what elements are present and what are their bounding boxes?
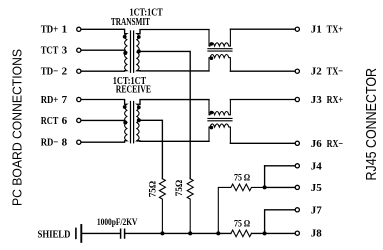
choke L1 bottom phase dot [210,56,214,60]
svg-text:1000pF/2KV: 1000pF/2KV [97,218,138,228]
choke L1 top winding (transmit) [209,29,230,46]
svg-text:J7: J7 [311,204,323,216]
transformer T1 secondary phase dot [137,35,141,39]
svg-text:TRANSMIT: TRANSMIT [111,17,150,28]
choke L2 bottom winding (receive) [209,124,230,143]
resistor R3 75 ohm (J4/J5 branch) [218,184,264,233]
svg-text:1: 1 [62,24,68,36]
svg-text:TD−: TD− [41,66,59,78]
choke L2 top phase dot [210,111,214,115]
wire choke L2 to J6 [230,142,295,144]
wire J7 riser [265,210,296,234]
resistor R1 75 ohm (receive CT) [159,179,165,234]
svg-text:PC BOARD CONNECTIONS: PC BOARD CONNECTIONS [10,49,25,206]
svg-text:J3: J3 [311,94,323,106]
node RCT pin 6 terminal [77,118,81,122]
node J4 terminal [295,164,299,168]
node J7 terminal [295,208,299,212]
junction dot rail/R2 [188,231,192,235]
svg-text:J1: J1 [311,24,322,36]
transformer T1 core [131,31,134,72]
wire choke L2 to J3 [230,99,295,101]
choke L1 bottom winding (transmit) [209,55,230,72]
svg-text:RX+: RX+ [327,94,344,106]
svg-text:J6: J6 [311,138,323,150]
capacitor C1 1000pF/2KV [121,229,125,238]
svg-text:RX−: RX− [327,138,344,150]
transformer T1 secondary winding (transmit) [137,34,140,71]
transformer T2 primary winding (receive) [125,104,127,141]
svg-text:7: 7 [62,94,68,106]
svg-text:J4: J4 [311,160,323,172]
svg-text:J5: J5 [311,182,323,194]
junction dot rail/R1 [160,231,164,235]
choke L2 core [208,118,232,120]
transformer T1 secondary center-tap dot [137,49,141,53]
transformer T1 primary center-tap dot [123,51,127,55]
svg-text:75Ω: 75Ω [175,179,185,196]
transformer T1 primary phase dot [123,35,127,39]
wire RD+ to receive primary top [81,100,124,105]
wire ground rail right (R4 to J8) [252,232,296,234]
node TD+ pin 1 terminal [77,27,81,31]
transformer T2 primary phase dot [123,105,127,109]
svg-text:8: 8 [62,137,68,149]
node RD+ pin 7 terminal [77,97,81,101]
junction dot rail/J7 branch [263,231,267,235]
svg-text:TD+: TD+ [41,24,59,36]
transformer T2 primary center-tap dot [123,121,127,125]
wire T1 secondary top to choke L1 [140,30,209,35]
wire shield to capacitor C1 [82,232,120,234]
svg-text:J2: J2 [311,66,323,78]
node TD- pin 2 terminal [77,69,81,73]
shield chassis symbol [75,228,77,238]
node RD- pin 8 terminal [77,140,81,144]
wire choke L1 to J1 [230,28,295,30]
node J6 terminal [295,141,299,145]
wire to J5 [265,186,296,188]
choke L1 top phase dot [210,42,214,46]
resistor R2 75 ohm (transmit CT) [187,179,193,234]
node J8 terminal [295,231,299,235]
resistor R4 75 ohm (in ground rail) [231,230,252,237]
wire T2 secondary top to choke L2 [140,100,209,105]
node J3 terminal [295,97,299,101]
wire T2 secondary center tap to resistor R1 column [139,120,163,178]
node TCT pin 3 terminal [77,48,81,52]
svg-text:RD−: RD− [41,137,59,149]
svg-text:SHIELD: SHIELD [38,228,71,240]
wire RD- to receive primary bottom [81,141,124,142]
transformer T2 secondary center-tap dot [137,118,141,122]
wire J4-J5 tie [264,166,266,188]
svg-text:RJ45 CONNECTOR: RJ45 CONNECTOR [364,68,380,181]
wire to J4 [265,165,296,167]
svg-text:TCT: TCT [41,45,59,57]
svg-text:J8: J8 [311,228,323,240]
svg-text:75 Ω: 75 Ω [234,173,251,183]
junction dot rail/R3 branch [216,231,220,235]
svg-text:3: 3 [62,45,68,57]
svg-text:RCT: RCT [41,115,59,127]
wire choke L1 to J2 [230,70,295,72]
wire RCT to receive primary center tap [81,120,125,122]
node J5 terminal [295,185,299,189]
junction dot J4/J5 branch [263,185,267,189]
wire TCT to primary center tap [81,50,125,52]
wire TD+ to transformer primary top [81,29,124,34]
wire ground rail left (cap to R4) [125,232,230,234]
wire T1 secondary bottom to choke L1 [137,70,209,72]
wire TD- to transformer primary bottom [81,70,124,73]
wire T1 secondary center tap to resistor R2 column [139,51,190,178]
node J2 terminal [295,69,299,73]
choke L2 bottom phase dot [210,126,214,130]
transformer T2 secondary phase dot [137,106,141,110]
svg-text:TX+: TX+ [327,24,344,36]
svg-text:RD+: RD+ [41,94,59,106]
svg-text:75 Ω: 75 Ω [234,219,251,229]
node J1 terminal [295,27,299,31]
svg-text:TX−: TX− [327,66,344,78]
choke L2 top winding (receive) [209,100,230,115]
transformer T2 secondary winding (receive) [137,104,140,141]
svg-text:6: 6 [62,115,68,127]
wire T2 secondary bottom to choke L2 [137,140,209,142]
svg-text:RECEIVE: RECEIVE [116,85,151,96]
transformer T1 primary winding (transmit) [125,34,127,71]
transformer T2 core [131,102,134,143]
svg-text:75Ω: 75Ω [149,180,159,197]
svg-text:2: 2 [62,66,68,78]
choke L1 core [208,49,232,51]
